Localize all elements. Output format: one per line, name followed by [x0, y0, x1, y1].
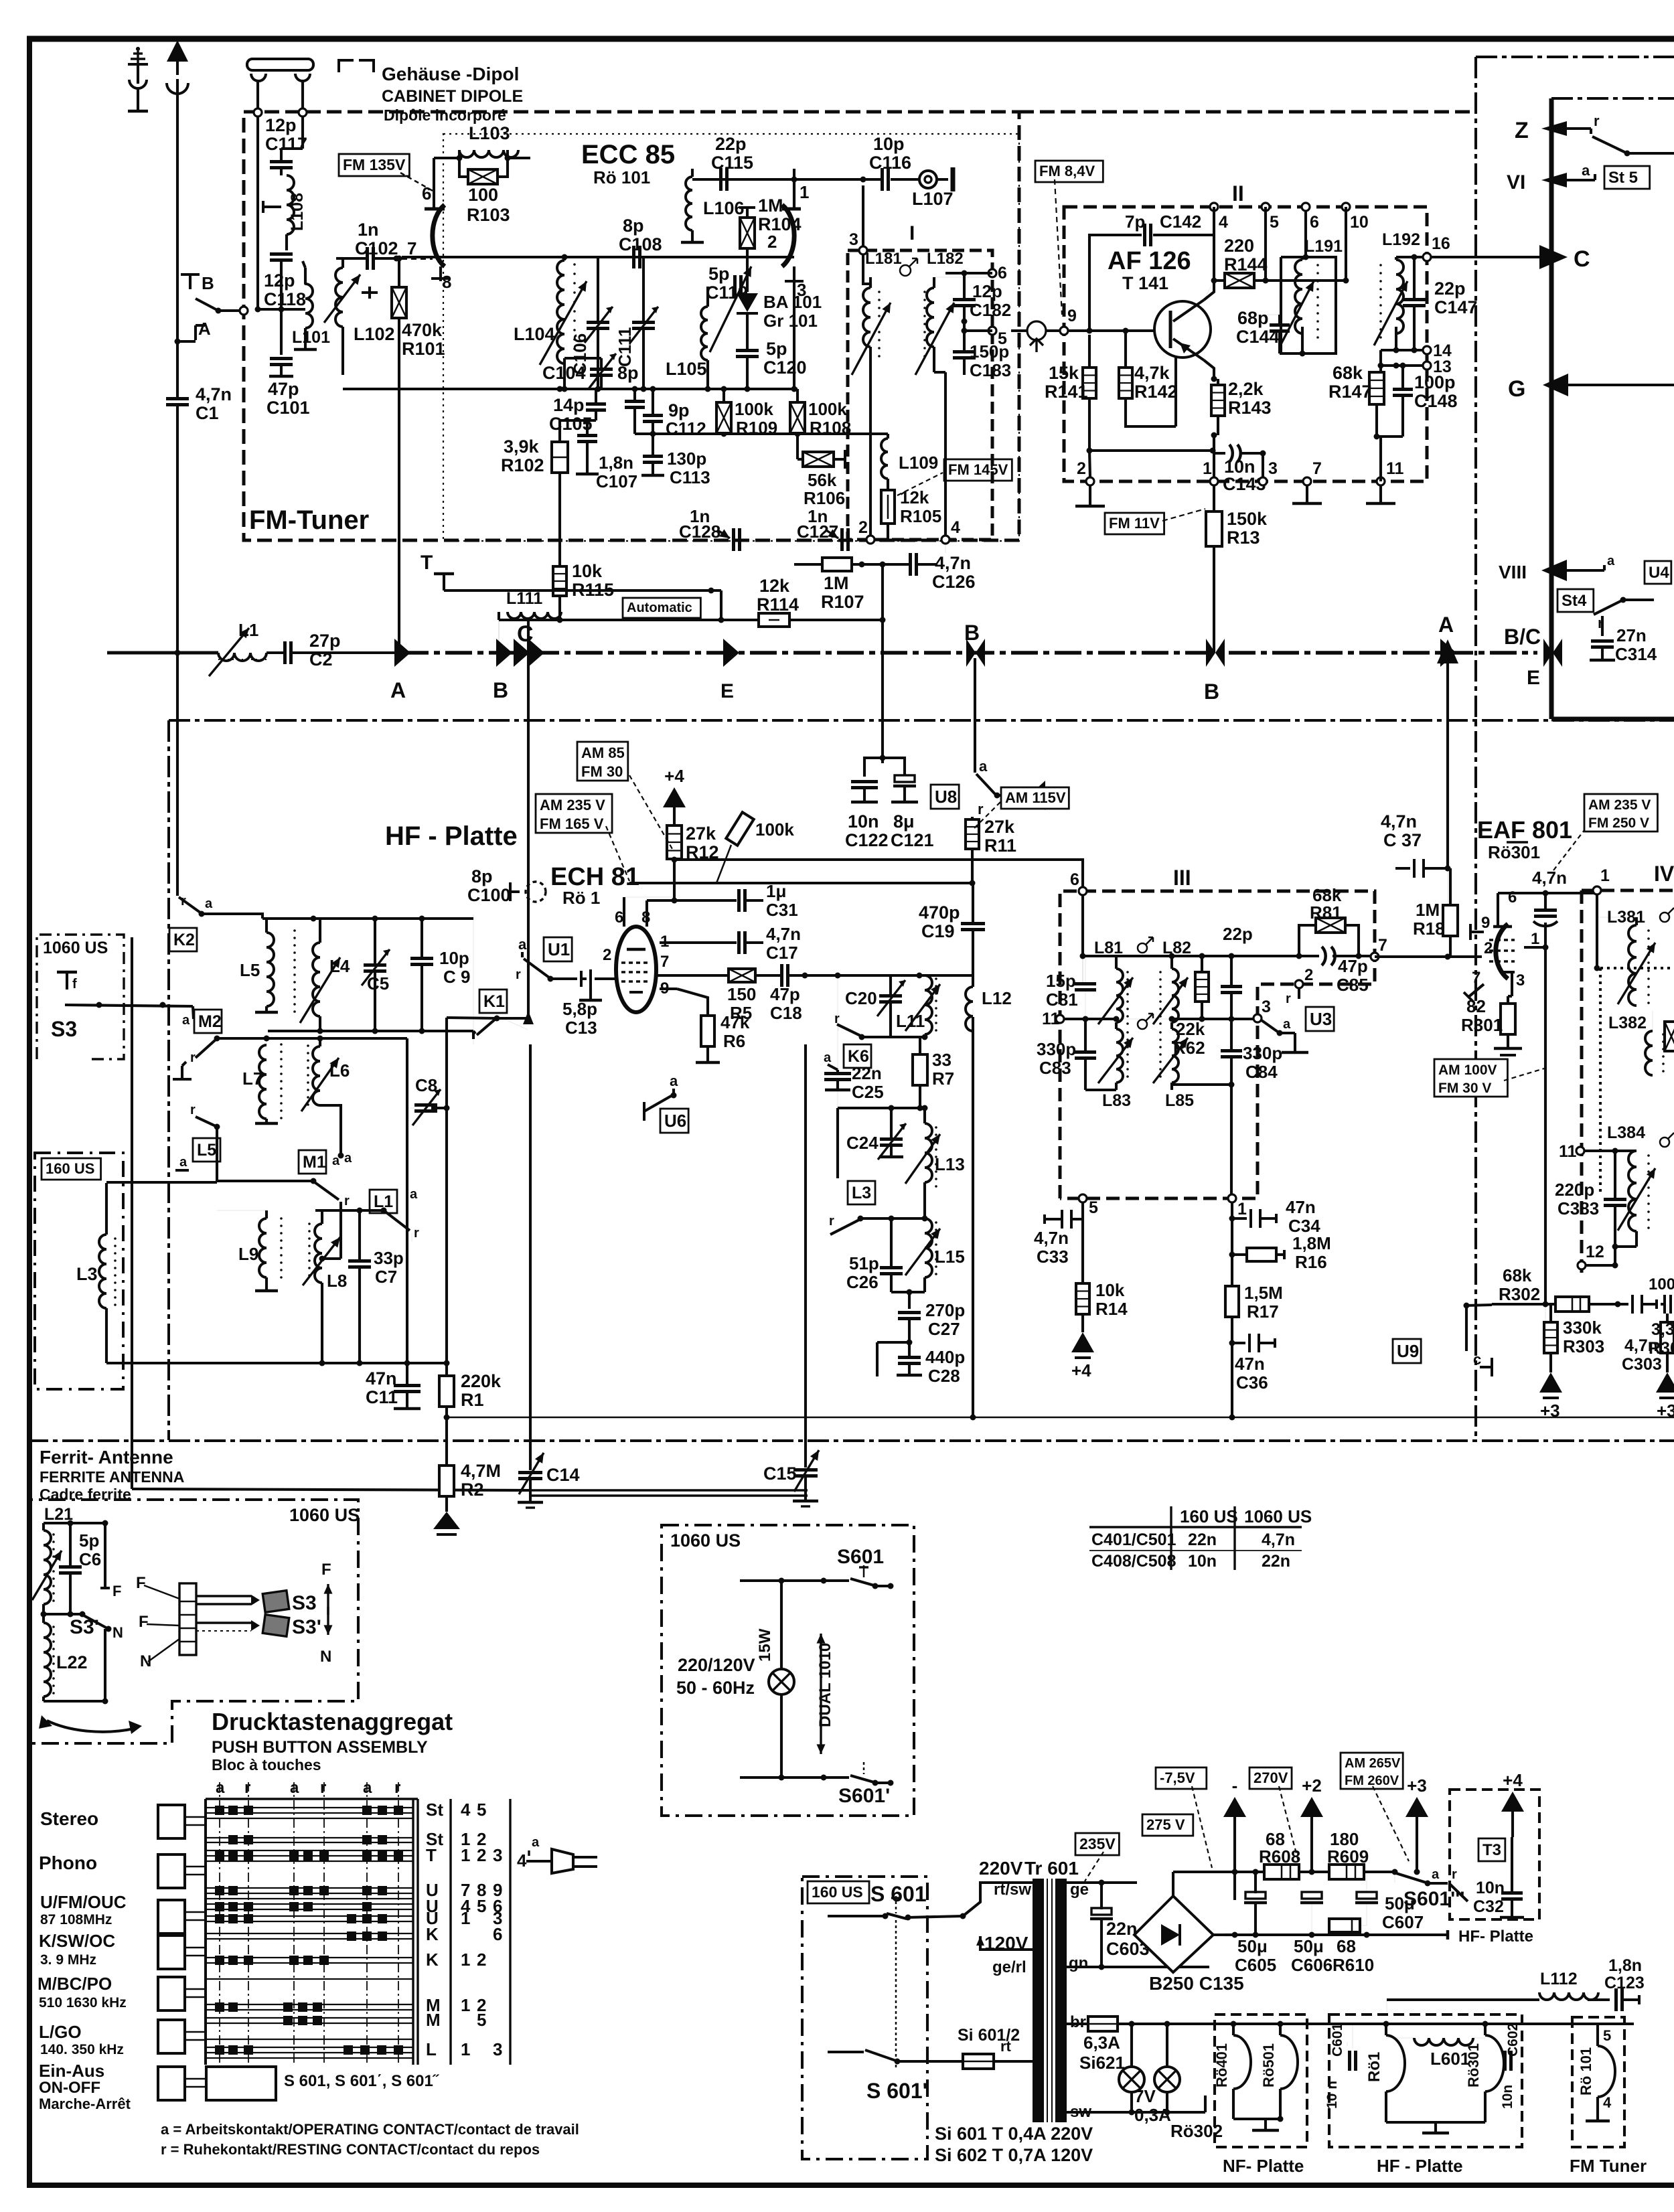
svg-text:BA 101: BA 101 — [763, 292, 822, 312]
svg-text:C148: C148 — [1414, 391, 1458, 411]
svg-text:R301: R301 — [1461, 1015, 1503, 1035]
coil L82 variable — [1172, 969, 1178, 1022]
svg-text:15W: 15W — [756, 1628, 774, 1662]
svg-text:L: L — [426, 2039, 437, 2059]
feed wire y1284 — [674, 860, 1083, 887]
svg-text:r: r — [190, 1050, 196, 1065]
capacitor C605 50u — [1245, 1892, 1266, 1899]
svg-text:220k: 220k — [461, 1371, 502, 1391]
svg-text:L22: L22 — [56, 1652, 88, 1672]
resistor R13 150k — [1206, 511, 1222, 546]
chassis dashed line right — [1019, 110, 1476, 114]
supply arrow +4 R12 — [663, 787, 686, 807]
svg-text:1,5M: 1,5M — [1244, 1283, 1283, 1303]
coil L3 — [99, 1235, 106, 1308]
wire g3 — [660, 941, 737, 944]
coil L8 variable — [315, 1224, 322, 1283]
svg-text:C6: C6 — [79, 1549, 101, 1569]
capacitor C26 51p — [880, 1266, 903, 1269]
svg-text:Rö501: Rö501 — [1260, 2043, 1277, 2087]
resistor R143 2,2k — [1211, 385, 1225, 416]
svg-text:-: - — [1232, 1775, 1238, 1796]
trimmer C106 — [587, 321, 609, 324]
resistor R16 1,8M — [1247, 1248, 1276, 1261]
bus arrow A — [394, 639, 410, 667]
pin 9 — [1060, 327, 1068, 335]
wire minus down — [1233, 1872, 1236, 1900]
svg-text:C120: C120 — [763, 358, 807, 378]
svg-text:B/C: B/C — [1504, 625, 1541, 649]
border frame top — [27, 36, 1674, 42]
button link Stereo — [185, 1816, 206, 1818]
svg-text:FM Tuner: FM Tuner — [1570, 2156, 1647, 2176]
svg-text:AM 235 V: AM 235 V — [1588, 797, 1651, 813]
band unit left dash-dot line — [1474, 57, 1477, 1440]
svg-text:C111: C111 — [615, 327, 635, 367]
diode BA101 Gr101 — [746, 281, 749, 292]
svg-text:47n: 47n — [1235, 1354, 1265, 1374]
svg-text:FM 8,4V: FM 8,4V — [1039, 163, 1095, 179]
svg-text:6: 6 — [998, 264, 1007, 283]
switch S3prime — [84, 1615, 107, 1628]
coil L103 with R103 — [434, 150, 530, 191]
wire A down to anode line — [1447, 868, 1448, 906]
wire C15 up — [804, 1044, 807, 1468]
svg-text:f: f — [72, 977, 77, 992]
svg-text:1: 1 — [1203, 459, 1212, 478]
matrix row line — [206, 1938, 413, 1940]
lamp wire bottom — [780, 1694, 783, 1777]
arrow VI with St5 — [1507, 162, 1650, 193]
svg-text:N: N — [320, 1648, 331, 1666]
border frame left — [27, 39, 32, 2187]
svg-text:FM 135V: FM 135V — [343, 156, 406, 173]
mars symbol 5 — [1660, 1137, 1669, 1147]
junction S3prime — [44, 1613, 82, 1615]
svg-text:4,7n: 4,7n — [766, 924, 801, 944]
svg-text:1M: 1M — [758, 195, 783, 216]
pin 11 terminal — [1056, 1015, 1064, 1023]
wire y1522 — [1064, 1018, 1116, 1020]
svg-text:Si621: Si621 — [1079, 2053, 1125, 2073]
svg-text:L103: L103 — [469, 123, 510, 143]
svg-text:10: 10 — [1350, 213, 1369, 232]
svg-text:Rö 101: Rö 101 — [1578, 2047, 1594, 2096]
NF-Platte dashed box — [1215, 2014, 1307, 2147]
main grid wire 2 — [402, 256, 794, 258]
wire pin1 down — [1231, 1202, 1233, 1417]
capacitor C602 10n — [1503, 2051, 1507, 2071]
resistor R81 68k — [1316, 918, 1345, 933]
svg-text:50 - 60Hz: 50 - 60Hz — [676, 1678, 755, 1698]
svg-text:5: 5 — [477, 2010, 486, 2030]
svg-text:S601': S601' — [838, 1785, 890, 1807]
bus diamond B2 — [1206, 639, 1215, 667]
callout — [972, 802, 1000, 830]
svg-text:F: F — [321, 1561, 331, 1579]
wire base — [1068, 329, 1169, 332]
svg-text:470p: 470p — [919, 902, 960, 923]
svg-text:C32: C32 — [1473, 1897, 1504, 1916]
wire K1 line — [472, 1031, 475, 1039]
svg-text:R141: R141 — [1045, 382, 1088, 402]
coil L102 variable — [324, 258, 378, 375]
coil L601 — [1414, 2038, 1473, 2045]
bus junction C double arrow — [514, 639, 530, 667]
svg-text:Rö 101: Rö 101 — [593, 167, 650, 187]
svg-text:a: a — [332, 1154, 340, 1168]
voltage label AM235 FM250 — [1584, 794, 1657, 832]
label 275V boxed — [1142, 1814, 1193, 1836]
svg-text:68k: 68k — [1503, 1265, 1532, 1285]
svg-text:rt: rt — [1000, 2038, 1012, 2055]
label T3 boxed — [1478, 1838, 1505, 1861]
capacitor C116 10p — [881, 168, 884, 191]
svg-text:L6: L6 — [329, 1060, 350, 1081]
wire pin5 down — [1264, 207, 1267, 281]
svg-text:4,7n: 4,7n — [935, 553, 971, 573]
terminal Tf — [57, 971, 77, 974]
svg-text:7: 7 — [660, 953, 669, 971]
svg-text:S 601: S 601 — [870, 1882, 927, 1906]
svg-text:R608: R608 — [1259, 1846, 1300, 1867]
capacitor C303 4,7n — [1618, 1303, 1628, 1306]
svg-text:FM 30 V: FM 30 V — [1438, 1081, 1491, 1096]
svg-text:0,3A: 0,3A — [1134, 2105, 1171, 2125]
band unit top dash-dot — [1476, 56, 1674, 58]
svg-text:160 US: 160 US — [812, 1883, 863, 1901]
svg-text:R105: R105 — [900, 506, 941, 526]
wire l9 m1 — [339, 1202, 342, 1259]
arrow VIII with St4 — [1499, 554, 1615, 612]
svg-text:+4: +4 — [1071, 1360, 1091, 1380]
matrix column line — [398, 1782, 399, 2065]
svg-text:6,3A: 6,3A — [1083, 2033, 1120, 2053]
voltage label FM 135V — [339, 154, 409, 176]
svg-text:AM 265V: AM 265V — [1345, 1756, 1401, 1771]
svg-text:L106: L106 — [703, 198, 745, 218]
arrow Z with switch — [1515, 112, 1674, 157]
svg-text:C108: C108 — [619, 234, 662, 254]
label 235V boxed — [1075, 1833, 1119, 1855]
wire screen down — [1544, 947, 1547, 1304]
antenna input arrow — [167, 40, 188, 94]
lamp 15W — [769, 1669, 794, 1694]
svg-text:L192: L192 — [1382, 230, 1420, 249]
svg-text:a: a — [216, 1779, 225, 1797]
coil L5 — [267, 933, 274, 1006]
svg-text:C84: C84 — [1245, 1062, 1278, 1082]
svg-text:1: 1 — [461, 1845, 470, 1865]
capacitor C121 8u electrolytic — [895, 775, 915, 782]
link wires S3 — [196, 1595, 251, 1597]
capacitor C101 — [280, 309, 283, 355]
dashed box T3 — [1450, 1790, 1539, 1919]
svg-text:Gehäuse -Dipol: Gehäuse -Dipol — [382, 64, 519, 84]
wire S3 out — [65, 1005, 193, 1006]
trimmer C119 — [733, 275, 737, 298]
160US power dashed box — [802, 1877, 927, 2159]
svg-text:T 141: T 141 — [1122, 273, 1168, 293]
wire antenna down — [176, 653, 179, 890]
svg-text:3: 3 — [797, 280, 806, 300]
matrix row line — [206, 1812, 413, 1814]
svg-text:3,3k: 3,3k — [1651, 1320, 1674, 1339]
gang link double line — [529, 1489, 808, 1491]
wire l83 bottom — [1085, 1089, 1116, 1091]
capacitor C102 — [366, 247, 369, 270]
svg-text:4,7n: 4,7n — [1532, 868, 1567, 888]
matrix row line — [206, 1887, 413, 1889]
matrix row line — [206, 1915, 413, 1917]
svg-text:ECH 81: ECH 81 — [550, 863, 639, 891]
svg-text:+3: +3 — [1407, 1775, 1427, 1796]
wire R114 to node — [881, 564, 884, 758]
svg-text:a: a — [205, 896, 213, 911]
svg-text:Si 601 T 0,4A 220V: Si 601 T 0,4A 220V — [935, 2124, 1093, 2144]
resistor R141 15k — [1083, 368, 1096, 398]
svg-text:1M: 1M — [824, 573, 849, 593]
capacitor C25 22n — [824, 1072, 851, 1075]
section I dashed box — [848, 250, 992, 540]
matrix row line — [206, 1909, 413, 1910]
svg-text:Ferrit- Antenne: Ferrit- Antenne — [40, 1447, 173, 1468]
svg-text:a: a — [1607, 554, 1615, 568]
heater return wire — [1067, 2111, 1122, 2114]
svg-text:10k: 10k — [572, 561, 603, 581]
wire down to bus — [528, 620, 529, 653]
transistor T141 AF126 — [1154, 281, 1214, 379]
terminal A stub — [175, 319, 212, 345]
switch S601prime lamp — [740, 1762, 894, 1786]
svg-text:C11: C11 — [366, 1387, 398, 1407]
section II dashed box — [1064, 207, 1427, 481]
svg-text:3. 9 MHz: 3. 9 MHz — [40, 1952, 96, 1968]
svg-text:ECC 85: ECC 85 — [581, 140, 675, 169]
svg-text:L182: L182 — [927, 250, 964, 268]
matrix row line — [206, 2017, 413, 2019]
svg-text:A: A — [198, 319, 211, 339]
svg-text:1: 1 — [1531, 930, 1539, 948]
svg-text:L384: L384 — [1607, 1123, 1645, 1142]
capacitor C82 22p — [1221, 985, 1242, 988]
svg-text:Dipôle incorporé: Dipôle incorporé — [384, 106, 506, 124]
svg-text:+3: +3 — [1657, 1401, 1674, 1421]
resistor R104 1M — [740, 218, 755, 248]
pin 4 terminal — [941, 536, 949, 544]
matrix row line — [206, 1855, 413, 1856]
svg-text:a: a — [1283, 1017, 1291, 1032]
mid ground rail — [1225, 1933, 1395, 1936]
trimmer C14 — [518, 1471, 542, 1474]
svg-text:R11: R11 — [984, 836, 1016, 856]
svg-text:FM 165 V: FM 165 V — [540, 815, 604, 832]
switch K1 r — [497, 967, 528, 1030]
svg-text:C117: C117 — [265, 134, 307, 154]
svg-text:K: K — [426, 1924, 439, 1944]
svg-text:82: 82 — [1466, 996, 1486, 1016]
capacitor C143 10n — [1229, 445, 1233, 462]
wire out y1428 — [1231, 955, 1299, 957]
wire L5b — [216, 1127, 218, 1138]
label U8 — [931, 785, 959, 809]
svg-text:St: St — [426, 1800, 443, 1820]
earth terminal symbol — [128, 47, 148, 111]
wire L181 bottom — [869, 347, 872, 536]
svg-text:+2: +2 — [1302, 1775, 1322, 1796]
label U1 — [544, 937, 572, 961]
svg-text:Stereo: Stereo — [40, 1808, 98, 1829]
wire C84 down — [1230, 1085, 1233, 1196]
terminal F — [104, 1523, 106, 1588]
svg-text:C112: C112 — [666, 418, 706, 439]
svg-text:c: c — [1473, 1351, 1481, 1368]
svg-text:16: 16 — [1432, 234, 1450, 253]
terminal B switch — [181, 273, 248, 315]
svg-text:B250 C135: B250 C135 — [1149, 1973, 1244, 1994]
svg-text:FM 11V: FM 11V — [1109, 515, 1160, 532]
capacitor C109 8p — [625, 400, 645, 403]
svg-text:10n: 10n — [848, 811, 879, 832]
label K2 — [169, 928, 197, 951]
svg-text:C26: C26 — [846, 1272, 879, 1292]
svg-text:r: r — [1594, 112, 1600, 129]
trimmer C15 — [793, 1468, 818, 1472]
svg-text:U1: U1 — [548, 939, 570, 959]
svg-text:Drucktastenaggregat: Drucktastenaggregat — [212, 1708, 453, 1735]
svg-text:9p: 9p — [668, 400, 690, 420]
svg-text:6: 6 — [1310, 213, 1319, 232]
tank top wire — [262, 917, 473, 920]
svg-text:C25: C25 — [852, 1082, 884, 1102]
svg-text:10 n: 10 n — [1324, 2081, 1340, 2109]
callout — [1553, 830, 1584, 870]
svg-text:1,8n: 1,8n — [1608, 1956, 1642, 1975]
wire pin10 — [1345, 207, 1347, 281]
coil L22 — [44, 1623, 51, 1696]
svg-text:140. 350 kHz: 140. 350 kHz — [40, 2042, 124, 2057]
wire primary bottom — [828, 2051, 864, 2053]
trimmer C24 — [880, 1137, 903, 1141]
resistor 100k diag — [726, 812, 753, 846]
wire L21 top — [44, 1522, 105, 1524]
svg-text:10n: 10n — [1188, 1552, 1217, 1571]
svg-text:100k: 100k — [755, 819, 794, 840]
svg-text:100k: 100k — [735, 399, 773, 419]
resistor R7 33 — [913, 1054, 927, 1085]
wire y673 — [1089, 449, 1213, 452]
svg-text:Rö 1: Rö 1 — [562, 888, 600, 908]
FM-Tuner dashed box — [244, 112, 1019, 540]
capacitor C603 22n — [1091, 1908, 1112, 1915]
switch M2 — [173, 1036, 220, 1130]
wire C8 right — [431, 1107, 447, 1109]
svg-text:L112: L112 — [1540, 1970, 1578, 1988]
ferrite box dash-dot — [29, 1500, 358, 1743]
top wire C115-C116 — [692, 179, 718, 180]
svg-text:Automatic: Automatic — [627, 601, 692, 615]
coil L6 variable — [313, 1046, 320, 1105]
wire — [1379, 350, 1382, 366]
svg-text:47p: 47p — [770, 984, 800, 1004]
svg-text:C121: C121 — [891, 830, 934, 850]
capacitor C117 — [270, 160, 293, 163]
svg-text:C122: C122 — [845, 830, 889, 850]
supply +3 left — [1539, 1372, 1562, 1393]
svg-text:C142: C142 — [1160, 212, 1201, 232]
wire L85 C84 — [1172, 1083, 1231, 1086]
tube triode 1 (ECC85a) — [402, 191, 445, 281]
svg-text:U9: U9 — [1397, 1341, 1419, 1361]
svg-text:FM 260V: FM 260V — [1345, 1773, 1399, 1788]
svg-text:C183: C183 — [970, 360, 1011, 380]
capacitor C601 10n — [1348, 2051, 1351, 2071]
inner dashed box IV — [1600, 967, 1674, 969]
coil L109 — [881, 439, 888, 479]
svg-text:R16: R16 — [1295, 1252, 1327, 1272]
svg-text:A: A — [390, 678, 406, 702]
linkage ladder — [179, 1583, 196, 1655]
capacitor C28 440p — [898, 1356, 921, 1359]
svg-text:7: 7 — [1472, 969, 1480, 987]
svg-text:12p: 12p — [265, 115, 297, 135]
trimmer C111 — [632, 321, 655, 324]
capacitor C118 — [270, 252, 293, 256]
svg-text:r: r — [829, 1214, 834, 1229]
svg-text:a = Arbeitskontakt/OPERATING: a = Arbeitskontakt/OPERATING CONTACT/con… — [161, 2121, 579, 2138]
coil L192 variable — [1396, 260, 1403, 333]
pin 5 terminal — [988, 327, 996, 335]
svg-text:A: A — [1438, 613, 1454, 637]
switch S601 lamp — [740, 1565, 894, 1589]
capacitor C147 22p — [1403, 298, 1426, 301]
svg-text:a: a — [363, 1779, 372, 1797]
supply +2 arrow — [1300, 1797, 1323, 1817]
svg-text:L108: L108 — [288, 193, 307, 231]
svg-text:Si 602 T 0,7A 120V: Si 602 T 0,7A 120V — [935, 2145, 1093, 2165]
svg-text:L181: L181 — [865, 250, 902, 268]
svg-text:C8: C8 — [415, 1075, 437, 1095]
1060US lamp dashed box — [662, 1525, 914, 1816]
svg-text:R17: R17 — [1247, 1301, 1279, 1322]
svg-text:a: a — [290, 1779, 299, 1797]
callout — [1055, 179, 1062, 315]
svg-text:50μ: 50μ — [1237, 1936, 1268, 1956]
resistor R301 82 — [1501, 1004, 1515, 1034]
svg-text:2: 2 — [1304, 966, 1313, 984]
svg-text:4: 4 — [951, 518, 960, 537]
svg-text:S601: S601 — [837, 1546, 884, 1568]
svg-text:C13: C13 — [565, 1018, 597, 1038]
wire M1 left — [216, 1138, 218, 1181]
svg-text:275 V: 275 V — [1146, 1816, 1185, 1833]
wire 120V tap — [980, 1936, 1033, 1950]
resistor R609 180 — [1329, 1865, 1364, 1879]
svg-text:1μ: 1μ — [766, 881, 786, 901]
wire C14 up — [529, 1044, 532, 1470]
coil L101 — [305, 284, 313, 328]
svg-text:L7: L7 — [242, 1069, 262, 1089]
switch a pin3 — [1262, 1017, 1308, 1052]
matrix top edge — [206, 1798, 418, 1800]
bottom rail left area — [106, 1362, 447, 1364]
switch K2 — [177, 890, 213, 917]
matrix row line — [206, 1921, 413, 1922]
ground pin4 — [945, 544, 946, 553]
resistor R1 220k — [439, 1376, 454, 1407]
svg-text:III: III — [1173, 866, 1191, 890]
svg-text:C303: C303 — [1622, 1355, 1662, 1374]
